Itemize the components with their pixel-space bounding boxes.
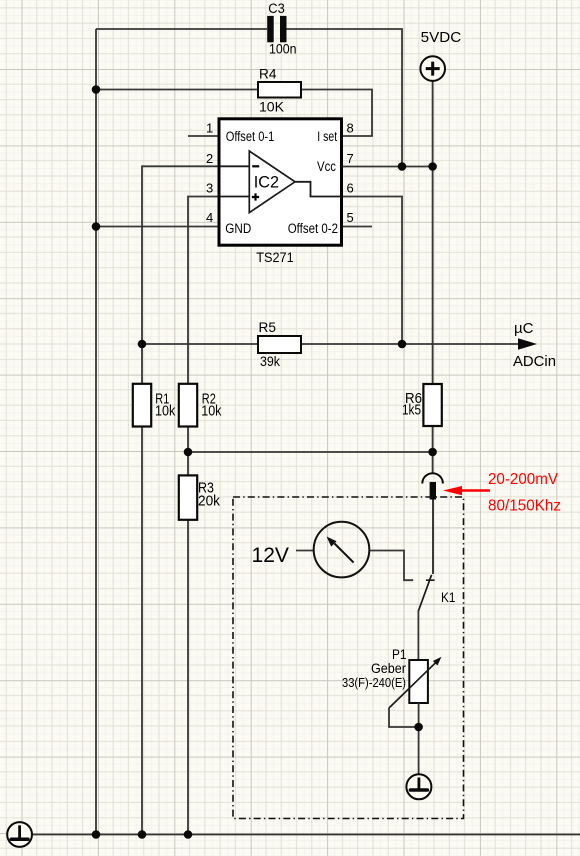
wire: potentiometer bottom lead (418, 703, 420, 774)
wire: R1 bottom lead to ground bus (141, 427, 143, 835)
wire: R4 right lead down to pin 8 (I set) (301, 90, 372, 137)
switch K1 blade (418, 575, 431, 611)
ground (inside enclosure) (406, 774, 431, 799)
wire: R5 right lead to ADC arrow (301, 343, 521, 345)
svg-text:7: 7 (347, 151, 354, 166)
svg-text:K1: K1 (441, 590, 456, 605)
svg-text:2: 2 (206, 151, 213, 166)
svg-text:Offset 0-1: Offset 0-1 (226, 129, 275, 144)
svg-text:39k: 39k (260, 353, 281, 369)
op-amp IC2 package outline (219, 119, 342, 245)
wire: pin 7 Vcc lead (342, 166, 433, 168)
wire: R1 top lead (141, 344, 143, 384)
wire: pin 4 lead from x=96 bus (96, 226, 219, 228)
svg-text:33(F)-240(E): 33(F)-240(E) (342, 676, 406, 690)
svg-text:10K: 10K (259, 99, 285, 115)
svg-text:Offset 0-2: Offset 0-2 (288, 221, 338, 236)
potentiometer P1 wiper arrow (389, 657, 442, 708)
potentiometer P1 body (409, 660, 428, 703)
wire: bottom ground bus (32, 834, 580, 836)
resistor R6 (423, 384, 441, 426)
wire: non-inverting input inside package (220, 196, 249, 198)
resistor R2 (179, 384, 197, 427)
connector X1 socket arc (422, 473, 443, 483)
wire: main left vertical bus x=96 (95, 29, 97, 835)
svg-text:µC: µC (514, 320, 534, 337)
svg-text:Geber: Geber (371, 661, 406, 676)
sensor enclosure (dash-dot box) (233, 497, 464, 819)
plus sign at non-inverting input (252, 193, 259, 200)
ADC output arrowhead (518, 338, 537, 349)
svg-text:5: 5 (347, 210, 354, 225)
svg-text:8: 8 (347, 120, 354, 135)
svg-text:20-200mV: 20-200mV (488, 471, 558, 488)
node: R5 left / R1 junction (138, 340, 147, 349)
capacitor C3 (267, 16, 286, 42)
resistor R3 (179, 475, 197, 519)
wire: op-amp output to pin 6 (295, 182, 341, 197)
svg-text:R4: R4 (259, 66, 277, 82)
wire: 5VDC vertical down to R6 (432, 81, 434, 384)
wire: R3 bottom lead to ground bus (187, 520, 189, 835)
svg-text:100n: 100n (269, 42, 297, 57)
node: R4 / left bus junction (92, 85, 101, 94)
ground (bottom left) (7, 822, 32, 847)
svg-text:P1: P1 (392, 647, 407, 662)
svg-text:20k: 20k (198, 494, 221, 510)
wire: R2 bottom lead (187, 427, 189, 476)
power 5VDC (420, 56, 445, 81)
node: R6 / sensor junction (428, 448, 437, 457)
svg-text:R5: R5 (259, 319, 277, 335)
node: R1 / ground bus junction (138, 830, 147, 839)
wire: meter to switch contact (369, 551, 413, 581)
connector X1 pin bar (430, 482, 436, 500)
svg-text:3: 3 (206, 180, 213, 195)
wire: 12V lead to meter (296, 550, 314, 552)
switch K1 upper contact (426, 500, 435, 581)
minus sign at inverting input (252, 165, 259, 167)
svg-text:6: 6 (347, 180, 354, 195)
wire: horizontal link R2/R3 node to R6 node (188, 451, 433, 453)
node: R3 / ground bus junction (184, 830, 193, 839)
wire: pin 2 lead from x=142 bus (142, 166, 219, 344)
svg-text:12V: 12V (252, 543, 290, 567)
resistor R4 (258, 82, 301, 98)
node: left bus / ground bus junction (92, 830, 101, 839)
wire: inverting input inside package (220, 165, 249, 167)
resistor R5 (258, 336, 301, 353)
op-amp IC2 triangle (249, 151, 295, 213)
wire: pin 5 stub (342, 226, 373, 228)
svg-text:1: 1 (206, 120, 213, 135)
node: Vcc / 5VDC junction (428, 162, 437, 171)
svg-text:10k: 10k (155, 404, 176, 420)
node: wiper / bottom terminal junction (414, 723, 423, 732)
svg-text:4: 4 (206, 210, 213, 225)
wire: R4 left lead (96, 89, 258, 91)
svg-text:80/150Khz: 80/150Khz (488, 498, 561, 515)
resistor R1 (133, 384, 151, 427)
node: C3 drop / Vcc junction (398, 162, 407, 171)
wire: R6 bottom lead to sensor node (432, 426, 434, 473)
node: pin 6 drop / R5 junction (398, 340, 407, 349)
svg-text:10k: 10k (201, 404, 222, 420)
svg-text:I set: I set (317, 129, 337, 144)
svg-text:Vcc: Vcc (317, 159, 336, 174)
node: pin 4 / left bus junction (92, 222, 101, 231)
wire: pin 1 stub (188, 135, 219, 137)
wire: C3 right segment to vertical drop into Vcc node (287, 29, 403, 167)
wire: pin 3 lead from x=188 bus (188, 197, 219, 384)
wire: wiper return to bottom terminal (389, 708, 419, 727)
svg-text:TS271: TS271 (256, 249, 294, 265)
wire: R5 left lead from node B (142, 343, 258, 345)
svg-text:IC2: IC2 (254, 173, 279, 191)
svg-text:GND: GND (225, 221, 251, 236)
meter (moving coil instrument) (314, 522, 370, 578)
wire: pin 6 output lead down to R5 node (342, 197, 403, 345)
svg-text:5VDC: 5VDC (421, 29, 462, 46)
node: R2 / R3 junction (184, 448, 193, 457)
svg-text:C3: C3 (268, 1, 285, 16)
svg-text:ADCin: ADCin (513, 353, 556, 370)
svg-text:1k5: 1k5 (402, 403, 421, 419)
wire: C3 left segment from node A column (96, 28, 267, 30)
annotation red arrow (443, 486, 490, 495)
wire: switch to potentiometer (417, 610, 419, 660)
